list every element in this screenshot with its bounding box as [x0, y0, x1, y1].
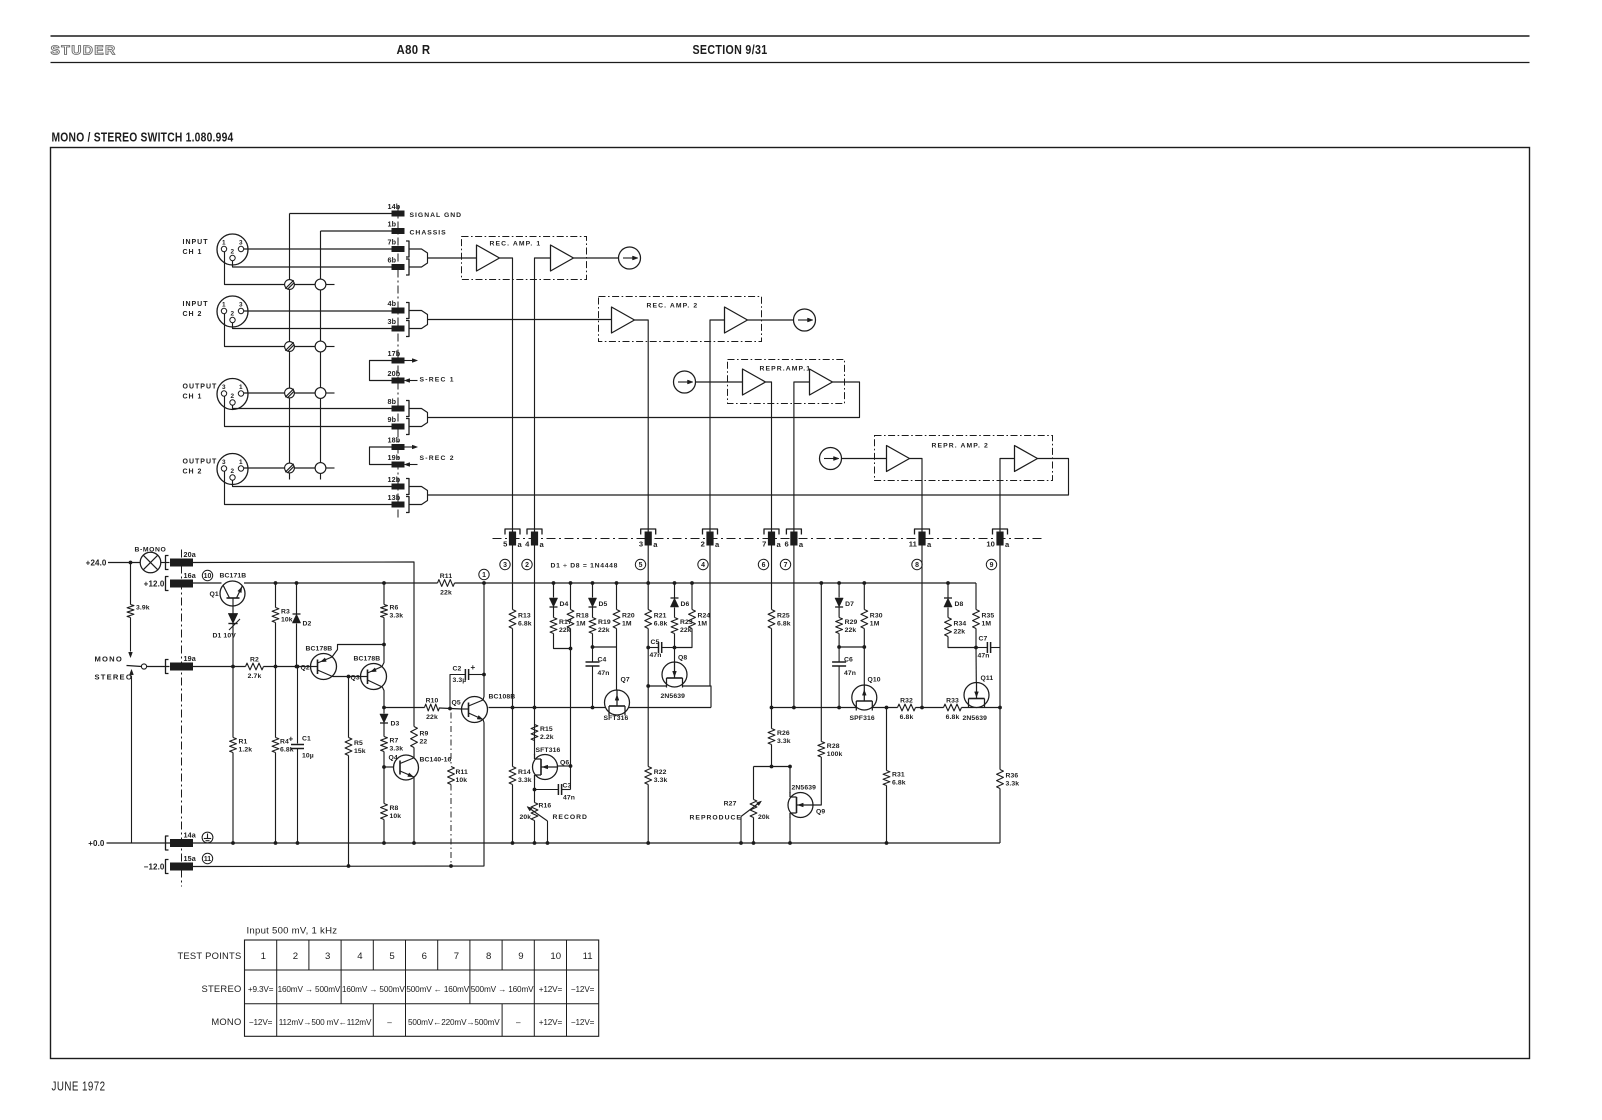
- cable link 12b/13b: [409, 487, 428, 505]
- svg-text:Q9: Q9: [816, 809, 825, 816]
- svg-text:Q11: Q11: [981, 675, 994, 682]
- wire R28 to Q9 gate: [813, 757, 821, 805]
- wire R24 to gate node: [675, 629, 693, 648]
- resistor R5 15k: [345, 738, 366, 756]
- resistor R17 22k: [550, 618, 572, 635]
- S-REC2 out arrow: [405, 445, 418, 449]
- amplifier REPR.AMP.2 stage 2: [1015, 446, 1038, 472]
- svg-text:a: a: [653, 540, 658, 549]
- REPR.AMP.2 block box: [875, 436, 1053, 481]
- resistor R29 22k: [836, 618, 858, 635]
- svg-text:160mV → 500mV: 160mV → 500mV: [278, 985, 341, 994]
- connector OUTPUT CH2 (XLR): [183, 454, 249, 485]
- wire Q6 gate to R18 line: [558, 765, 571, 767]
- wire Q8 source line: [648, 685, 666, 687]
- svg-text:CH 1: CH 1: [183, 249, 203, 256]
- wire OUT CH1 pin2 to 8b: [233, 405, 392, 408]
- svg-text:1: 1: [261, 951, 266, 962]
- pin 18b: [388, 436, 405, 451]
- table STEREO row values: [248, 985, 595, 994]
- junction C4 node: [591, 645, 595, 649]
- junction D7 link: [837, 645, 841, 649]
- wire 10a line down: [999, 546, 1001, 648]
- wire CH2-in shield link: [294, 346, 315, 348]
- svg-text:3.3k: 3.3k: [390, 613, 404, 620]
- wire R14 top: [512, 708, 514, 767]
- pin 19b: [388, 453, 405, 468]
- S-REC1 link loop: [370, 361, 393, 381]
- junction rail/D5: [591, 581, 595, 585]
- transistor Q8 2N5639: [661, 655, 688, 701]
- wire -12V rail: [193, 723, 484, 867]
- svg-text:INPUT: INPUT: [183, 301, 209, 308]
- junction R11/-12V rail: [449, 864, 453, 868]
- pin 20a: [166, 550, 197, 570]
- wire 0V rail: [107, 842, 1001, 844]
- svg-text:R28: R28: [827, 743, 840, 750]
- wire R6 to emitters: [383, 618, 385, 645]
- svg-text:12b: 12b: [388, 475, 401, 484]
- svg-text:11: 11: [583, 951, 593, 962]
- diode D2: [293, 614, 312, 628]
- chassis junction CH1-out: [315, 388, 326, 399]
- wire IN CH2 pin2 to 3b: [233, 323, 392, 329]
- svg-text:3.3µ: 3.3µ: [453, 677, 467, 684]
- svg-text:1: 1: [222, 240, 226, 247]
- wire R36 to 0V: [999, 789, 1001, 844]
- wire R30 to link: [863, 629, 865, 648]
- svg-text:R13: R13: [518, 613, 531, 620]
- svg-text:5: 5: [503, 540, 508, 549]
- wire gate to Q10: [863, 647, 865, 685]
- REPR.AMP.1 block box: [728, 360, 845, 404]
- svg-text:Q3: Q3: [351, 675, 360, 682]
- capacitor C7 47n: [976, 636, 1000, 660]
- svg-text:19b: 19b: [388, 453, 401, 462]
- wire Q2 emitter to R6 line: [332, 645, 384, 658]
- resistor R3 10k: [272, 608, 293, 624]
- svg-text:2: 2: [701, 540, 705, 549]
- svg-text:8b: 8b: [388, 397, 397, 406]
- svg-text:R15: R15: [540, 726, 553, 733]
- svg-text:–: –: [516, 1018, 521, 1027]
- junction C6/mid bus: [837, 706, 841, 710]
- svg-text:R31: R31: [892, 772, 905, 779]
- pin 5a: [503, 529, 522, 549]
- svg-text:1: 1: [482, 572, 486, 579]
- svg-text:112mV→500 mV←112mV: 112mV→500 mV←112mV: [279, 1018, 372, 1027]
- amplifier REPR.AMP.1 stage 2: [810, 369, 833, 395]
- svg-text:3.3k: 3.3k: [654, 777, 668, 784]
- svg-text:R25: R25: [777, 613, 790, 620]
- wire CH2-out shield link: [294, 467, 315, 469]
- wire Q5 emitter down: [483, 720, 484, 723]
- wire 20a to Q4 collector (mono rail): [193, 562, 414, 727]
- S-REC2 in arrow: [405, 463, 418, 467]
- wire Q8 gate stub: [674, 648, 676, 663]
- pin 4b: [388, 299, 410, 319]
- wire R9 to Q4 collector: [413, 748, 415, 759]
- svg-text:2: 2: [231, 249, 235, 256]
- wire Q4 emitter to 0V: [413, 777, 415, 843]
- wire IN CH2 pin3 to 4b: [244, 310, 392, 312]
- svg-text:1M: 1M: [622, 621, 632, 628]
- wire REC.AMP.2 out: [748, 319, 794, 321]
- svg-text:a: a: [540, 540, 545, 549]
- svg-text:6.8k: 6.8k: [900, 714, 914, 721]
- wire OUT CH1 pin3 to 9b: [225, 396, 392, 426]
- wire mid source bus right c: [962, 707, 1001, 709]
- svg-text:10: 10: [204, 573, 212, 580]
- connector X1b board edge (dash-dot): [397, 206, 399, 520]
- wire to REPR.AMP.1: [696, 381, 743, 383]
- svg-text:2: 2: [231, 468, 235, 475]
- svg-text:1M: 1M: [576, 621, 586, 628]
- svg-text:R19: R19: [598, 619, 611, 626]
- pin 7b: [388, 238, 410, 258]
- svg-text:6b: 6b: [388, 256, 397, 265]
- junction rail/R28: [819, 581, 823, 585]
- svg-text:1: 1: [222, 302, 226, 309]
- svg-text:R3: R3: [281, 609, 290, 616]
- wire mono control rail: [264, 666, 311, 668]
- svg-text:20k: 20k: [758, 814, 770, 821]
- wire +9 rail to R20: [616, 583, 618, 610]
- connector X2a board edge (dash-dot): [181, 550, 183, 887]
- junction Q11 gate node: [974, 646, 978, 650]
- svg-text:REC. AMP. 1: REC. AMP. 1: [490, 241, 542, 248]
- resistor R30 1M: [861, 610, 883, 629]
- svg-text:3.3k: 3.3k: [390, 746, 404, 753]
- svg-text:6.8k: 6.8k: [654, 621, 668, 628]
- resistor R28 100k: [818, 742, 843, 758]
- wire OUT CH1 pin1 shield: [244, 392, 285, 394]
- junction R13/mid bus: [511, 706, 515, 710]
- svg-text:8: 8: [486, 951, 491, 962]
- resistor R18 1M: [567, 610, 589, 629]
- switch S1 mono/stereo: [127, 664, 147, 669]
- wire R22 line upper: [647, 686, 649, 767]
- svg-text:47n: 47n: [844, 670, 856, 677]
- svg-text:BC178B: BC178B: [354, 656, 381, 663]
- junction R22/0V: [646, 841, 650, 845]
- wire R29 to link: [838, 634, 840, 648]
- wire 3a line down: [647, 546, 649, 610]
- amplifier REC.AMP.1 stage 2: [551, 245, 574, 271]
- wire 14b to shield bus: [290, 213, 392, 215]
- transistor Q5 BC108B: [452, 697, 488, 723]
- S-REC1 out arrow: [405, 359, 418, 363]
- pin 14a: [166, 831, 197, 851]
- pin 7a: [762, 529, 781, 549]
- header top rule: [51, 35, 1530, 37]
- svg-text:BC171B: BC171B: [220, 573, 247, 580]
- junction R27 wiper/0V: [739, 841, 743, 845]
- amplifier REPR.AMP.1 stage 1: [743, 369, 766, 395]
- shield junction CH1-in: [285, 280, 295, 290]
- cable link 7b/6b: [409, 249, 428, 267]
- resistor R26 3.3k: [768, 729, 791, 746]
- connector INPUT CH2 (XLR): [183, 296, 249, 327]
- shield junction CH1-out: [285, 388, 295, 398]
- wire R1 to 0V: [232, 753, 234, 844]
- wire R35 to gate node: [975, 629, 977, 648]
- svg-text:2.7k: 2.7k: [248, 673, 262, 680]
- wire link to Q9: [789, 767, 791, 794]
- wire mid bus end down: [999, 708, 1001, 770]
- wire Q9 source to 0V: [789, 818, 791, 844]
- wire R3 to mono rail: [275, 623, 277, 667]
- junction R5/-12V rail: [347, 864, 351, 868]
- svg-text:SPF316: SPF316: [850, 715, 875, 722]
- svg-text:R36: R36: [1006, 773, 1019, 780]
- svg-text:20b: 20b: [388, 369, 401, 378]
- svg-text:C3: C3: [563, 783, 572, 790]
- resistor R19 22k: [589, 618, 611, 635]
- wire Q2 collector to Q3 base: [333, 676, 361, 678]
- pin 13b: [388, 493, 410, 513]
- junction C1/0V: [296, 841, 300, 845]
- svg-text:3b: 3b: [388, 317, 397, 326]
- wire R3 top: [275, 583, 277, 608]
- svg-text:3: 3: [503, 562, 507, 569]
- junction rail/R24: [690, 581, 694, 585]
- svg-text:−12V=: −12V=: [571, 1018, 595, 1027]
- wire +9 rail to R18: [570, 583, 572, 610]
- svg-text:500mV←220mV→500mV: 500mV←220mV→500mV: [408, 1018, 500, 1027]
- test point 10: [202, 570, 212, 580]
- amplifier REC.AMP.2 stage 2: [725, 307, 748, 333]
- diode D7: [835, 598, 854, 608]
- svg-text:13b: 13b: [388, 493, 401, 502]
- svg-text:9: 9: [990, 562, 994, 569]
- svg-text:CH 2: CH 2: [183, 311, 203, 318]
- stub CH2-in chassis: [326, 346, 335, 348]
- svg-text:+9.3V=: +9.3V=: [248, 985, 274, 994]
- table MONO row values: [249, 1018, 595, 1027]
- svg-text:22k: 22k: [440, 590, 452, 597]
- transistor Q10 SPF316: [850, 677, 881, 723]
- cable link 4b/3b: [409, 311, 428, 329]
- svg-text:+: +: [289, 735, 294, 744]
- svg-text:7: 7: [784, 562, 788, 569]
- svg-text:500mV ← 160mV: 500mV ← 160mV: [406, 985, 469, 994]
- transistor Q6 SFT316: [533, 754, 570, 780]
- amplifier REC.AMP.1 stage 1: [477, 245, 500, 271]
- svg-text:6.8k: 6.8k: [280, 747, 294, 754]
- junction +9 rail/R3: [274, 581, 278, 585]
- resistor R6 3.3k: [381, 605, 404, 620]
- capacitor C3 47n: [535, 766, 576, 802]
- junction C4/mid bus: [591, 706, 595, 710]
- wire switch to 19a: [147, 666, 170, 668]
- svg-text:D8: D8: [955, 601, 964, 608]
- junction Q8 gate node: [673, 646, 677, 650]
- zener diode D1 10V: [213, 614, 241, 640]
- wire REPR.AMP.1 out to 8b/9b pair: [428, 382, 860, 418]
- resistor R35 1M: [973, 610, 995, 629]
- svg-text:1M: 1M: [982, 621, 992, 628]
- junction Q6 gate node: [569, 764, 573, 768]
- pin 2a: [701, 529, 720, 549]
- svg-text:+: +: [471, 663, 476, 672]
- resistor R25 6.8k: [768, 610, 791, 629]
- svg-text:10k: 10k: [281, 617, 293, 624]
- wire shield bus A: [289, 214, 291, 480]
- svg-text:6.8k: 6.8k: [946, 714, 960, 721]
- pin 12b: [388, 475, 410, 495]
- junction rail/R21: [646, 581, 650, 585]
- svg-text:R2: R2: [250, 657, 259, 664]
- wire R7 to Q4 base: [383, 752, 385, 768]
- input connector REPR.AMP.1: [674, 371, 696, 393]
- wire R20 link to Q7 gate: [616, 647, 618, 690]
- junction R26/pot link: [770, 765, 774, 769]
- wire 6a line down: [793, 546, 795, 708]
- svg-text:47n: 47n: [598, 670, 610, 677]
- pin 8b: [388, 397, 410, 417]
- test point 8: [912, 559, 922, 569]
- wire +9 rail to D7: [838, 583, 840, 598]
- svg-text:3.3k: 3.3k: [777, 738, 791, 745]
- wire CH1-out shield link: [294, 392, 315, 394]
- junction C1/mono rail: [296, 665, 300, 669]
- junction rail/R20: [615, 581, 619, 585]
- transistor Q7 SFT316: [604, 677, 630, 723]
- resistor R10 22k: [425, 698, 440, 722]
- wire R28 top: [820, 583, 822, 742]
- junction Q2/Q3 emitters: [382, 643, 386, 647]
- wire +9 rail to D8: [947, 583, 949, 598]
- wire REPR.AMP.1 st1 out to 7a: [766, 382, 772, 532]
- junction rail/R30: [862, 581, 866, 585]
- pin 15a: [166, 854, 197, 874]
- svg-text:2: 2: [293, 951, 298, 962]
- resistor R14 3.3k: [509, 767, 532, 785]
- svg-text:R10: R10: [426, 698, 439, 705]
- chassis junction CH1-in: [315, 279, 326, 290]
- amplifier REPR.AMP.2 stage 1: [887, 446, 910, 472]
- svg-text:REPRODUCE: REPRODUCE: [690, 815, 742, 822]
- wire mid bus to R26: [771, 708, 773, 729]
- pin 3a: [639, 529, 658, 549]
- junction Q9/0V: [788, 841, 792, 845]
- svg-text:47n: 47n: [978, 653, 990, 660]
- svg-text:C1: C1: [302, 736, 311, 743]
- link D5-R20: [593, 646, 617, 648]
- wire +24 to R3.9k: [130, 563, 132, 605]
- svg-text:R8: R8: [390, 805, 399, 812]
- svg-text:22k: 22k: [426, 714, 438, 721]
- junction R1/0V: [231, 841, 235, 845]
- pin 3b: [388, 317, 410, 337]
- header bottom rule: [51, 62, 1530, 64]
- svg-text:D5: D5: [599, 601, 608, 608]
- wire mono rail to R4: [275, 667, 277, 738]
- test point 3: [500, 559, 510, 569]
- svg-text:BC108B: BC108B: [489, 694, 516, 701]
- svg-text:14b: 14b: [388, 202, 401, 211]
- pin 6a: [785, 529, 804, 549]
- resistor R20 1M: [613, 610, 635, 629]
- svg-text:+24.0: +24.0: [86, 559, 107, 568]
- wire lamp to 20a: [161, 562, 170, 564]
- svg-text:MONO: MONO: [211, 1016, 241, 1027]
- wire R16 to 0V: [534, 821, 536, 844]
- wire D2 to mono rail: [296, 624, 298, 667]
- svg-text:7: 7: [762, 540, 766, 549]
- junction C2/collector line: [482, 673, 486, 677]
- test point 6: [758, 559, 768, 569]
- svg-text:47n: 47n: [650, 652, 662, 659]
- svg-text:−12V=: −12V=: [249, 1018, 273, 1027]
- pin 17b: [388, 349, 405, 364]
- junction link/Q9: [788, 765, 792, 769]
- svg-text:15k: 15k: [354, 748, 366, 755]
- lamp B-MONO: [135, 547, 167, 573]
- svg-text:STEREO: STEREO: [95, 673, 133, 682]
- svg-text:18b: 18b: [388, 436, 401, 445]
- pin 6b: [388, 256, 410, 276]
- potentiometer R27 wiper: [724, 801, 770, 844]
- wire Q8 drain to 2a line: [683, 686, 712, 708]
- svg-text:+12V=: +12V=: [539, 985, 563, 994]
- wire D7 lower: [838, 608, 840, 618]
- wire CH1-in shield link: [294, 284, 315, 286]
- diode D3: [380, 714, 400, 727]
- svg-text:47n: 47n: [563, 795, 575, 802]
- wire R23 to gate node: [674, 634, 676, 648]
- junction R25/mid bus: [770, 706, 774, 710]
- svg-text:Q2: Q2: [301, 665, 310, 672]
- cable link 8b/9b: [409, 409, 428, 427]
- junction rail/D7: [837, 581, 841, 585]
- wire 1b to shield bus: [321, 230, 392, 232]
- pin 16a: [166, 571, 197, 591]
- wire 4a line down: [534, 546, 536, 708]
- svg-text:a: a: [927, 540, 932, 549]
- wire R25 to mid bus: [771, 629, 773, 708]
- svg-text:R7: R7: [390, 738, 399, 745]
- svg-text:OUTPUT: OUTPUT: [183, 459, 218, 466]
- resistor R33 6.8k: [944, 698, 962, 722]
- svg-text:100k: 100k: [827, 751, 843, 758]
- wire D4 chain to link: [554, 634, 571, 649]
- capacitor C1 10u: [289, 667, 314, 844]
- wire D6 lower: [674, 608, 676, 618]
- transistor Q3 BC178B: [351, 664, 387, 690]
- svg-text:C2: C2: [453, 666, 462, 673]
- wire +9V rail (Q1 emitter bus) right: [455, 582, 977, 584]
- wire 2a line down: [709, 546, 711, 687]
- svg-text:R27: R27: [724, 801, 737, 808]
- wire R22 to 0V: [647, 785, 649, 844]
- capacitor C2 3.3u: [450, 663, 484, 709]
- wire +9V rail (Q1 emitter bus) left: [244, 582, 438, 584]
- junction rail/D4: [552, 581, 556, 585]
- junction Q4 emitter/0V: [412, 841, 416, 845]
- svg-text:10µ: 10µ: [302, 753, 314, 760]
- junction Q4 base/R8: [382, 765, 386, 769]
- svg-text:9: 9: [518, 951, 523, 962]
- wire +9 rail to D4: [553, 583, 555, 598]
- svg-text:R24: R24: [698, 613, 711, 620]
- wire R31 top: [886, 708, 888, 771]
- svg-text:1M: 1M: [870, 621, 880, 628]
- pin 9b: [388, 415, 410, 435]
- svg-text:–: –: [387, 1018, 392, 1027]
- junction +9 rail/D2: [295, 581, 299, 585]
